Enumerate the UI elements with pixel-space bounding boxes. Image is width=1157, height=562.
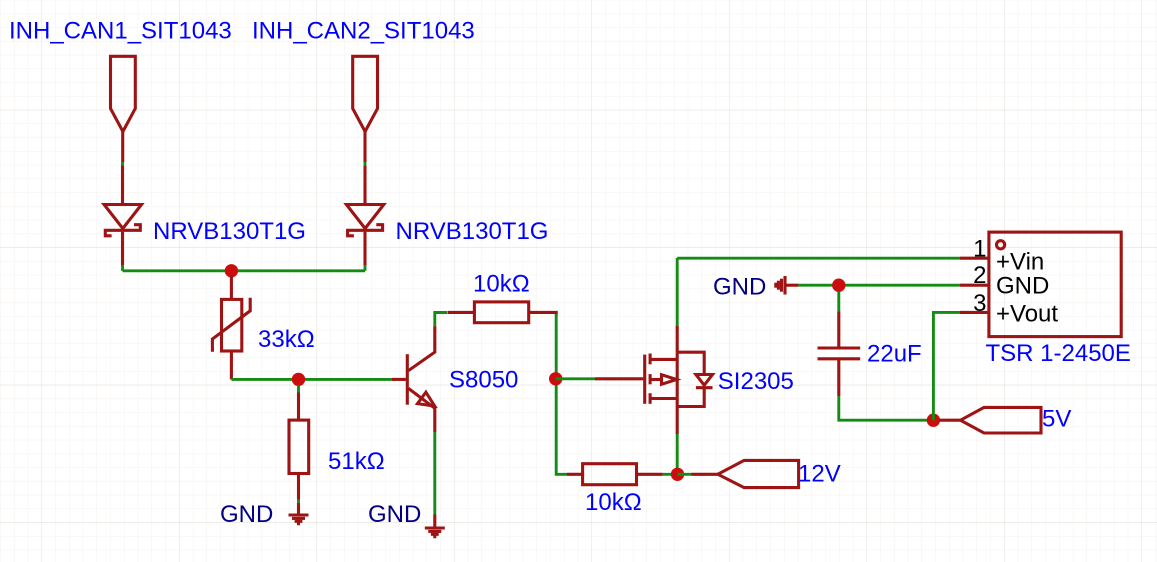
svg-text:22uF: 22uF	[867, 341, 922, 368]
svg-text:GND: GND	[220, 501, 273, 528]
pin 2 stub of U1	[960, 284, 989, 287]
mosfet Q2 source connection	[650, 358, 677, 361]
diode D1 schottky cathode bar	[105, 225, 140, 236]
svg-text:GND: GND	[996, 273, 1049, 300]
pin 3 stub of U1	[960, 311, 989, 314]
junction gate node	[549, 372, 562, 385]
svg-text:S8050: S8050	[449, 367, 518, 394]
wire drain to 12V flag	[678, 473, 692, 476]
junction GND net	[832, 279, 845, 292]
svg-text:TSR 1-2450E: TSR 1-2450E	[986, 340, 1131, 367]
wire emitter down	[433, 432, 436, 515]
wire collector up	[435, 313, 448, 327]
pin of diode D2	[363, 165, 366, 204]
wire drain to node	[676, 434, 679, 469]
pin resistor R2 51k top	[297, 393, 300, 421]
wire junction to capacitor	[837, 292, 840, 312]
pin varistor RV1 top	[230, 276, 233, 299]
power flag 12V	[718, 460, 799, 487]
svg-text:+Vin: +Vin	[996, 248, 1044, 275]
pin of diode D1 bottom	[121, 232, 124, 265]
pin gate stub	[595, 377, 643, 380]
wire base net	[231, 378, 392, 381]
junction on bus	[225, 264, 238, 277]
mosfet Q2 channel segment bottom	[649, 393, 652, 404]
transistor Q1 emitter	[408, 388, 434, 432]
wire from R3 to gate node	[556, 314, 567, 474]
mosfet Q2 bulk connection with arrow	[650, 378, 662, 381]
mosfet Q2 body diode bar	[696, 386, 713, 389]
diode D1 NRVB130T1G triangle	[104, 205, 141, 229]
pin of port flag INH_CAN1	[121, 132, 124, 163]
svg-text:33kΩ: 33kΩ	[258, 326, 315, 353]
wire source up	[676, 258, 679, 326]
svg-text:10kΩ: 10kΩ	[473, 271, 530, 298]
pin of diode D2 bottom	[363, 232, 366, 265]
transistor Q1 emitter arrow	[418, 392, 435, 406]
wire Vout net	[933, 312, 960, 420]
svg-text:SI2305: SI2305	[718, 368, 794, 395]
mosfet Q2 bulk arrow	[662, 375, 677, 385]
wire diode D1 to bus	[121, 265, 124, 271]
wire bus between diodes	[123, 269, 366, 272]
ground symbol right	[425, 528, 445, 537]
wire R4 to drain node	[663, 473, 671, 476]
power flag 5V	[961, 407, 1042, 433]
pin varistor RV1 bottom	[230, 351, 233, 379]
pin to ground	[297, 503, 300, 515]
pin emitter to ground	[433, 515, 436, 528]
diode D2 NRVB130T1G triangle	[346, 205, 383, 229]
svg-text:GND: GND	[713, 274, 766, 301]
junction 5V net	[927, 414, 940, 427]
wire top to Vin	[677, 257, 960, 260]
svg-text:GND: GND	[368, 501, 421, 528]
mosfet Q2 drain connection	[650, 397, 677, 400]
svg-text:2: 2	[973, 262, 986, 289]
varistor RV1 diagonal stroke	[212, 298, 250, 352]
mosfet Q2 body diode loop bottom	[677, 388, 704, 407]
ground symbol left	[289, 515, 309, 524]
pin mosfet source stub	[676, 326, 679, 353]
svg-text:INH_CAN1_SIT1043: INH_CAN1_SIT1043	[9, 18, 232, 45]
pin resistor R3 right	[529, 312, 557, 314]
pin 1 marker circle	[997, 241, 1005, 249]
port flag INH_CAN1	[111, 56, 136, 131]
svg-text:NRVB130T1G: NRVB130T1G	[396, 218, 549, 245]
svg-text:3: 3	[973, 290, 986, 317]
wire junction to R2	[297, 385, 300, 393]
mosfet Q2 gate bar	[643, 355, 646, 404]
mosfet Q2 channel segment middle	[649, 374, 652, 384]
pin of port flag INH_CAN2	[363, 132, 366, 163]
junction drain node	[671, 468, 684, 481]
svg-text:5V: 5V	[1042, 406, 1071, 433]
mosfet Q2 channel segment top	[649, 354, 652, 365]
pin of diode D1	[121, 165, 124, 204]
wire GND to pin2	[798, 284, 960, 287]
ground flag sideways	[776, 276, 785, 295]
transistor Q1 base bar	[406, 354, 409, 405]
diode D2 schottky cathode bar	[348, 225, 383, 236]
svg-text:1: 1	[973, 236, 986, 263]
pin ground flag	[787, 284, 799, 287]
pin resistor R4 right	[637, 473, 663, 476]
capacitor C1 bottom plate	[818, 357, 861, 360]
regulator U1 TSR 1-2450E body	[989, 232, 1121, 337]
pin mosfet drain stub	[676, 407, 679, 435]
wire	[121, 162, 124, 165]
pin resistor R2 bottom	[297, 474, 300, 500]
svg-text:INH_CAN2_SIT1043: INH_CAN2_SIT1043	[252, 18, 475, 45]
pin 1 stub of U1	[960, 257, 989, 260]
varistor RV1 33k body	[222, 299, 242, 351]
mosfet Q2 body diode loop top	[677, 352, 704, 374]
pin 5V flag	[939, 419, 961, 422]
wire base stub green end	[392, 378, 406, 381]
pin resistor R4 10k left	[567, 473, 583, 476]
transistor Q1 collector	[408, 326, 434, 371]
junction base net	[292, 373, 305, 386]
svg-text:+Vout: +Vout	[996, 301, 1058, 328]
pin capacitor C1 bottom	[837, 359, 840, 396]
wire cap to 5V net	[839, 396, 934, 420]
svg-text:NRVB130T1G: NRVB130T1G	[153, 218, 306, 245]
resistor R2 51k body	[289, 420, 309, 473]
wire diode D2 to bus	[364, 265, 367, 271]
wire	[364, 162, 367, 165]
pin capacitor C1 top	[837, 311, 840, 348]
mosfet Q2 main vertical	[676, 352, 679, 406]
pin 12V flag	[692, 473, 718, 476]
svg-text:51kΩ: 51kΩ	[328, 448, 385, 475]
mosfet Q2 body diode triangle	[696, 375, 713, 386]
resistor R3 10k body	[474, 302, 528, 323]
port flag INH_CAN2	[353, 56, 378, 131]
wire	[297, 500, 300, 503]
svg-text:10kΩ: 10kΩ	[585, 489, 642, 516]
resistor R4 10k body	[583, 464, 637, 485]
capacitor C1 top plate	[818, 346, 861, 349]
pin resistor R3 10k left	[448, 311, 474, 314]
svg-text:12V: 12V	[798, 461, 841, 488]
wire gate	[556, 377, 595, 380]
